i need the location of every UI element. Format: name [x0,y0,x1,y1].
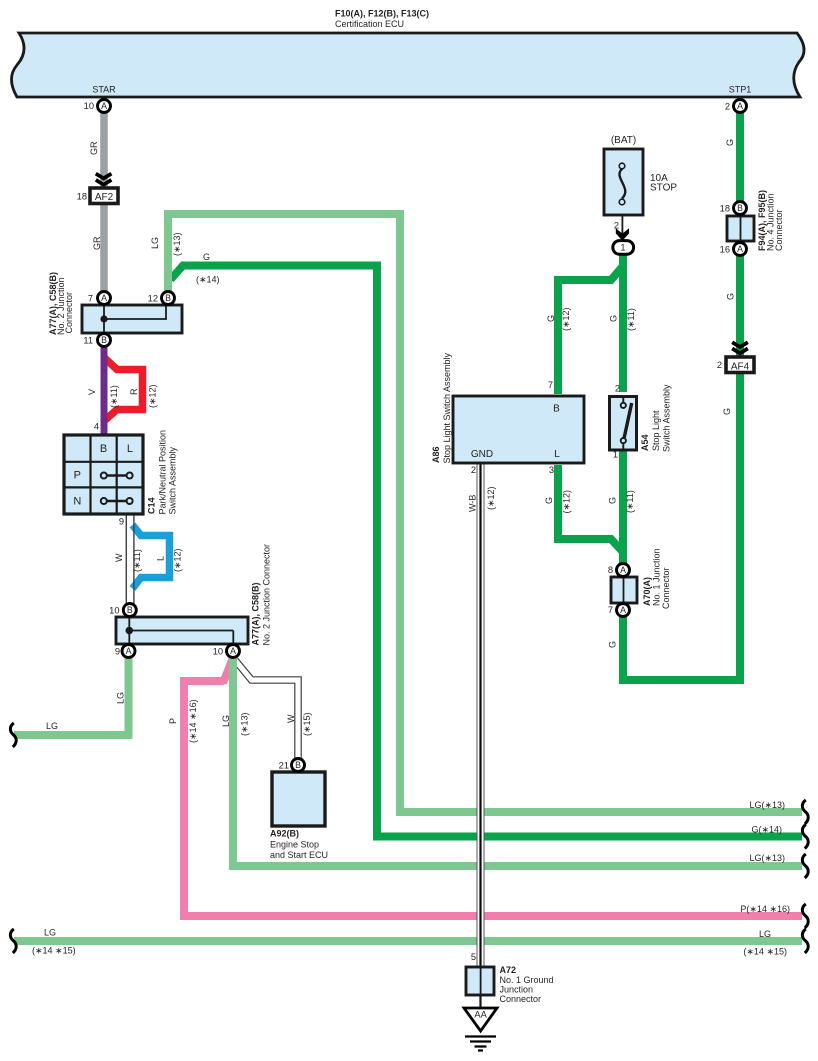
label G (∗11) fuse-A54 [609,308,637,331]
svg-text:3: 3 [549,465,554,475]
svg-text:G: G [725,139,735,146]
svg-text:Switch Assembly: Switch Assembly [168,446,178,514]
pin 7 A86 [548,380,553,390]
svg-text:10: 10 [109,605,119,615]
junction connector A77(A) C58(B) upper box [82,305,182,333]
svg-text:2: 2 [614,221,619,231]
C14 contact N row [107,500,126,502]
wire G from ECU STP1 pin 2 down right side to A70 junction connector [623,112,740,680]
svg-text:G: G [608,497,618,504]
svg-text:A92(B): A92(B) [270,829,299,839]
label A92(B) Engine Stop and Start ECU [270,829,328,861]
svg-text:Connector: Connector [661,567,671,609]
label G (∗12) fuse-A86 [546,307,571,331]
connector AF2 box [90,188,118,204]
svg-text:B: B [553,404,560,415]
label GR upper [89,141,99,155]
svg-text:L: L [127,443,133,455]
pin 18 16 F94 [720,203,730,254]
ECU band F10(A) F12(B) F13(C) Certification ECU [12,33,805,97]
svg-text:18: 18 [720,203,730,213]
pin 10 B at lower A77 connector [123,604,136,617]
labels bottom left LG (∗14 ∗15) [32,928,76,956]
svg-text:Switch Assembly: Switch Assembly [662,384,672,452]
connector AF4 chevrons [732,342,748,353]
svg-text:(∗12): (∗12) [486,486,496,510]
svg-text:W: W [114,553,124,562]
svg-text:A70(A): A70(A) [642,577,652,606]
label ECU name F10(A), F12(B), F13(C) [335,9,429,30]
label R (∗12) [129,384,158,408]
svg-text:P: P [74,470,81,482]
pin 8 A at A70 connector [617,564,630,577]
svg-text:18: 18 [77,191,87,201]
connector AF2 chevrons [96,174,112,185]
svg-text:GND: GND [471,449,493,460]
svg-text:(∗12): (∗12) [562,490,572,514]
pin 18 B at F94 connector [734,202,747,215]
pin 2 AF4 [717,360,722,370]
svg-text:A: A [230,646,236,656]
pin 2 A54 top [615,384,620,394]
svg-text:GR: GR [89,141,99,155]
label LG top vertical [150,232,182,256]
svg-text:(∗12): (∗12) [561,307,571,331]
wire LG (∗14 ∗15) bottom full width [14,937,802,945]
node STAR [84,85,117,112]
label A86 Stop Light Switch Assembly [431,352,452,463]
label W (∗15) [286,712,312,736]
pin 10 A at lower A77 connector [227,645,240,658]
svg-text:G: G [726,293,736,300]
svg-text:Connector: Connector [64,292,74,334]
label (BAT) fuse [611,135,636,146]
svg-text:2: 2 [725,101,730,111]
svg-text:7: 7 [548,380,553,390]
svg-text:A: A [620,605,626,615]
svg-text:1: 1 [620,243,625,253]
svg-text:A: A [126,646,132,656]
svg-text:AF4: AF4 [731,361,750,372]
label A70(A) No. 1 Junction Connector [642,548,671,609]
label L (∗12) [156,548,183,572]
svg-text:(∗13): (∗13) [172,232,182,256]
svg-text:21: 21 [279,760,289,770]
svg-text:W-B: W-B [467,495,477,512]
svg-text:Connector: Connector [774,209,784,251]
wire LG from pin 9 A to left edge [14,655,129,735]
wire L (∗12) alternate loop [133,525,170,589]
svg-text:12: 12 [148,293,158,303]
connector AF4 box [726,357,754,373]
svg-text:B: B [127,605,133,615]
svg-text:B: B [737,203,743,213]
pin 18 AF2 [77,191,87,201]
pin 4 C14 [94,422,99,432]
label GR lower [92,236,102,250]
pin 1 A54 bottom [613,450,618,460]
svg-text:5: 5 [471,952,476,962]
svg-text:(BAT): (BAT) [611,135,636,146]
label F94(A), F95(B) No. 4 Junction Connector [757,190,784,251]
pin 16 A at F94 connector [734,243,747,256]
svg-text:Park/Neutral Position: Park/Neutral Position [158,430,168,515]
pin 7 A at A70 connector [617,604,630,617]
svg-text:(∗11): (∗11) [625,490,635,513]
label G (∗12) below A86 [544,490,572,514]
svg-text:A72: A72 [500,965,517,975]
svg-text:(∗11): (∗11) [626,308,636,331]
svg-text:16: 16 [720,244,730,254]
label A77(A), C58(B) No. 2 Junction Connector upper [48,272,74,335]
svg-text:No. 1 Junction: No. 1 Junction [652,548,662,606]
labels right edge wires [749,800,785,810]
wire G (∗11) from fuse oval 1 down to A54 pin 2 [619,253,627,392]
label A54 Stop Light Switch Assembly [640,384,672,452]
wire W (∗15) from pin 10 A to A92 pin 21 : white wire [235,660,298,760]
svg-text:Certification ECU: Certification ECU [335,19,404,29]
label G right top [725,139,735,146]
pins 8 7 A70 [608,565,613,615]
svg-text:A54: A54 [640,434,650,451]
svg-text:(∗11): (∗11) [109,385,119,408]
svg-text:1: 1 [613,450,618,460]
wire GR from ECU STAR pin 10 down to junction connector [100,112,108,306]
tear squiggle right P y916 [802,904,808,928]
svg-text:B: B [101,335,107,345]
svg-text:A: A [737,244,743,254]
label LG (∗13) vertical pin10 [221,712,250,736]
svg-text:A: A [620,565,626,575]
C14 contact P row [107,474,126,476]
svg-text:B: B [295,760,301,770]
svg-text:10: 10 [213,646,223,656]
svg-text:No. 2 Junction Connector: No. 2 Junction Connector [262,544,272,646]
tear squiggle right LG y941 [802,929,808,953]
svg-text:AA: AA [474,1010,487,1020]
svg-text:9: 9 [115,646,120,656]
label LG left horizontal [46,721,58,731]
pin 10 A at ECU STAR [98,100,111,113]
wire G (∗12) from A86 pin 3 to junction with A54 wire [558,465,623,552]
svg-text:Stop Light Switch Assembly: Stop Light Switch Assembly [442,352,452,463]
pin 5 A72 [471,952,476,962]
svg-text:LG: LG [46,721,58,731]
svg-text:(∗14 ∗16): (∗14 ∗16) [188,699,198,743]
svg-text:B: B [100,443,107,455]
tear squiggle right LG y866 [802,854,808,878]
label C14 Park/Neutral Position Switch Assembly [147,430,178,515]
ECU A92(B) box [272,772,325,826]
svg-text:G: G [544,497,554,504]
svg-text:R: R [129,388,139,395]
pin 12 B at upper A77 connector [162,292,175,305]
pin 21 A92 [279,760,289,770]
label A77(A), C58(B) No. 2 Junction Connector lower [251,544,272,646]
svg-text:V: V [87,389,97,395]
label A72 No. 1 Ground Junction Connector [500,965,554,1004]
svg-text:(∗13): (∗13) [240,712,250,736]
label V (∗11) [87,385,119,408]
svg-text:STAR: STAR [92,85,116,95]
pins 7 12 11 upper A77 [83,293,158,345]
fuse lead and arrow to oval 1 [613,215,634,254]
junction connector A70(A) box [611,577,637,603]
wire LG (∗13) from pin 10 A to right edge [233,655,802,866]
svg-text:2: 2 [615,384,620,394]
svg-text:8: 8 [608,565,613,575]
pin 9 C14 [119,517,124,527]
svg-text:11: 11 [83,335,93,345]
labels C14 cells B L P N [73,443,133,508]
wire W-B (∗12) from A86 GND pin 2 down to A72 ground connector [477,463,485,1007]
tear squiggle right LG y811 [802,800,808,824]
pin 11 B at upper A77 connector [98,334,111,347]
svg-text:Stop Light: Stop Light [651,410,661,451]
fuse 10A STOP box [604,149,643,215]
svg-text:AF2: AF2 [95,192,114,203]
svg-text:7: 7 [88,293,93,303]
svg-text:(∗14 ∗15): (∗14 ∗15) [32,946,76,956]
svg-text:A86: A86 [431,446,441,463]
junction connector A77(A) C58(B) lower box [116,617,248,644]
junction connector F94(A) F95(B) box [727,216,754,241]
switch assembly A86 box [453,396,584,463]
svg-text:N: N [73,496,81,508]
pins 3 2 A86 bottom [471,465,554,475]
svg-text:LG(∗13): LG(∗13) [749,800,785,810]
wire P (∗14 ∗16) from pin 10 A to right edge [184,658,802,916]
pins 10 9 10 lower A77 [109,605,223,656]
svg-text:4: 4 [94,422,99,432]
label G (∗11) below A54 [608,490,636,513]
label W-B (∗12) [467,486,496,512]
svg-text:A77(A), C58(B): A77(A), C58(B) [251,582,261,645]
node STP1 [725,85,751,112]
svg-text:GR: GR [92,236,102,250]
svg-text:LG: LG [221,715,231,727]
svg-text:LG(∗13): LG(∗13) [749,853,785,863]
svg-text:9: 9 [119,517,124,527]
svg-text:L: L [554,449,560,460]
svg-text:(∗14): (∗14) [196,275,220,285]
ground symbol AA [464,995,497,1051]
wire LG (∗13) loop from junction connector pin 12 to right edge [168,214,802,812]
svg-text:B: B [165,293,171,303]
label G below A70 [608,641,618,648]
switch assembly A54 box [610,397,637,451]
svg-text:STOP: STOP [650,183,677,194]
svg-text:(∗14 ∗15): (∗14 ∗15) [743,947,787,957]
svg-text:A: A [101,293,107,303]
label W (∗11) [114,549,142,572]
svg-text:G: G [608,641,618,648]
svg-text:(∗15): (∗15) [302,712,312,736]
svg-text:(∗11): (∗11) [132,549,142,572]
svg-text:Engine Stop: Engine Stop [270,840,319,850]
pin 2 fuse [614,221,619,231]
tear squiggle left LG y941 [10,929,16,953]
svg-text:LG: LG [44,928,56,938]
svg-text:G: G [546,315,556,322]
label 10A STOP [650,173,677,194]
svg-text:G: G [203,252,210,262]
svg-text:LG: LG [116,692,126,704]
svg-text:W: W [286,714,296,723]
wire W (∗11) from C14 pin 9 to pin 10 B : white wire outline [126,508,134,606]
svg-text:STP1: STP1 [729,85,752,95]
tear squiggle right G y836 [802,825,808,849]
label G above AF4 [726,293,736,300]
wire R (∗12) alternate loop [103,357,143,423]
label G below AF4 [722,408,732,415]
ground junction connector A72 box [466,967,494,995]
label G (∗14) horizontal [196,252,220,285]
svg-text:7: 7 [608,605,613,615]
pin 2 A at ECU STP1 [734,100,747,113]
svg-text:(∗12): (∗12) [173,548,183,572]
svg-text:P: P [168,718,178,724]
label LG vertical pin9 [116,692,126,704]
svg-text:P(∗14 ∗16): P(∗14 ∗16) [740,904,790,914]
svg-text:No. 1 Ground: No. 1 Ground [500,975,554,985]
pin 7 A at upper A77 connector [98,292,111,305]
pin 9 A at lower A77 connector [122,645,135,658]
wire G (∗11) from A54 pin 1 to A70 pin 8 [619,450,627,566]
svg-text:A: A [737,101,743,111]
svg-text:LG: LG [150,237,160,249]
svg-text:A: A [101,101,107,111]
svg-text:and Start ECU: and Start ECU [270,850,328,860]
svg-text:L: L [156,556,166,561]
svg-text:2: 2 [717,360,722,370]
svg-text:(∗12): (∗12) [148,384,158,408]
svg-text:C14: C14 [147,497,157,514]
switch assembly C14 box [64,435,143,514]
svg-text:Connector: Connector [500,994,542,1004]
svg-text:2: 2 [471,465,476,475]
wire G (∗12) branch from fuse to A86 pin 7 [558,266,623,394]
svg-text:G: G [722,408,732,415]
wire V from pin 11 to C14 pin 4 [101,346,108,435]
tear squiggle left LG y735 [10,723,16,747]
svg-text:10: 10 [84,101,94,111]
svg-text:LG: LG [759,929,771,939]
wire G (∗14) branch from LG wire to right edge [171,266,803,837]
svg-text:G(∗14): G(∗14) [751,825,782,835]
pin 21 B at A92 ECU [292,759,305,772]
svg-text:F10(A), F12(B), F13(C): F10(A), F12(B), F13(C) [335,9,429,19]
svg-text:G: G [609,315,619,322]
label P (∗14 ∗16) [168,699,198,743]
